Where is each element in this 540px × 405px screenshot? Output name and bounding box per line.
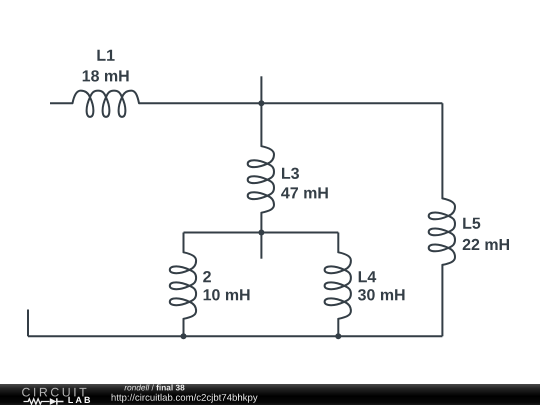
CircuitLab logo text CIRCUIT — [22, 388, 86, 397]
label L1 value 18 mH — [83, 70, 129, 81]
label L5 value 22 mH — [463, 239, 509, 250]
label L4 value 30 mH — [358, 289, 405, 300]
label L4 — [359, 271, 377, 282]
wire L4 top lead — [337, 233, 339, 253]
CircuitLab logo diode symbol — [50, 398, 64, 405]
wire top horizontal — [139, 102, 442, 104]
footer url — [112, 394, 258, 403]
inductor L4 — [325, 252, 351, 318]
label L3 value 47 mH — [281, 187, 328, 198]
wire right vertical bottom — [441, 265, 443, 336]
label L5 — [463, 218, 480, 229]
wire stub above node A — [260, 76, 262, 103]
label L2 value 10 mH — [204, 289, 250, 300]
label L1 — [97, 50, 114, 61]
junction node A — [258, 100, 264, 106]
wire L2 bottom lead — [183, 319, 185, 337]
junction node D — [335, 333, 341, 339]
wire L3 top lead — [260, 103, 262, 146]
CircuitLab logo resistor symbol — [24, 399, 50, 404]
label L3 — [282, 168, 299, 179]
inductor L3 — [248, 146, 274, 213]
CircuitLab logo text LAB — [68, 397, 90, 403]
wire bottom horizontal — [28, 335, 442, 337]
inductor L1 — [73, 91, 140, 117]
wire stub below node B — [260, 233, 262, 259]
wire bottom-left stub — [27, 310, 29, 337]
wire right vertical top — [441, 103, 443, 198]
wire top-left lead — [50, 102, 73, 104]
wire L3 bottom lead — [260, 213, 262, 233]
wire L4 bottom lead — [337, 319, 339, 337]
wire L2 top lead — [183, 233, 185, 253]
inductor L5 — [429, 198, 455, 265]
junction node C — [181, 333, 187, 339]
inductor L2 — [170, 252, 196, 318]
wire middle horizontal — [184, 232, 339, 234]
footer title rondell / final 38 — [124, 384, 184, 390]
junction node B — [258, 230, 264, 236]
label L2 name 2 — [203, 271, 211, 282]
